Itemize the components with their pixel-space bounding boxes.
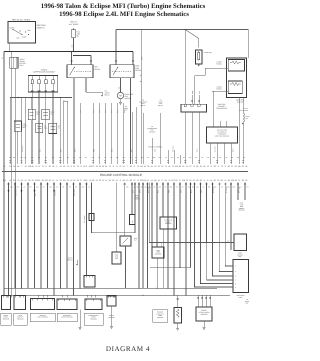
svg-text:75: 75	[17, 179, 19, 182]
svg-text:75: 75	[168, 179, 170, 182]
camshaft position sensor box	[57, 299, 77, 310]
svg-text:24: 24	[182, 165, 184, 168]
label box engine coolant temp sensor	[153, 310, 168, 322]
svg-text:22GA: 22GA	[161, 243, 163, 247]
svg-text:73: 73	[221, 165, 223, 168]
fusible link coil symbol	[243, 113, 245, 122]
stair wires into DLC	[225, 265, 233, 267]
condenser fan fuse A box	[228, 60, 244, 72]
wire joint connector A down	[11, 68, 13, 296]
svg-text:75: 75	[42, 165, 44, 168]
bus2 horizontal y97.5	[10, 97, 72, 99]
svg-text:88: 88	[179, 165, 181, 168]
wire to EVAP solenoid	[149, 242, 234, 244]
svg-text:84: 84	[17, 165, 19, 168]
suppressor capacitor 1	[31, 76, 33, 80]
svg-text:97: 97	[102, 179, 104, 182]
arrow sub fuse feed	[198, 65, 200, 67]
bus3 horizontal y288.3	[4, 287, 217, 289]
svg-text:7: 7	[21, 165, 22, 168]
wire relay2 to fan motor	[120, 78, 122, 93]
ground coolant sensor	[176, 327, 179, 330]
wire horizontal y232.8	[92, 232, 135, 234]
ground oxygen sensor	[203, 326, 206, 329]
noise filter box	[130, 215, 135, 225]
svg-text:39: 39	[60, 179, 62, 182]
svg-text:60: 60	[13, 179, 15, 182]
svg-text:64: 64	[235, 165, 237, 168]
left field vertical wires down to PCM	[9, 120, 11, 164]
svg-text:59: 59	[21, 179, 23, 182]
stair wire 280	[207, 279, 234, 281]
wire cond fan module out2 down	[242, 98, 244, 114]
svg-text:65: 65	[49, 165, 51, 168]
sub fusible link element	[198, 51, 200, 61]
wire down to power transistor	[184, 30, 186, 105]
fuel pump check connector box	[84, 276, 95, 288]
arrow to start relay	[101, 95, 103, 97]
svg-text:BLK: BLK	[246, 118, 249, 120]
svg-text:40: 40	[217, 179, 219, 182]
ignition switch contacts	[12, 29, 13, 30]
wire cond fuse A to left	[205, 67, 228, 69]
middle field vertical wires down to PCM	[131, 112, 133, 164]
svg-text:48: 48	[203, 165, 205, 168]
wires power transistor up	[191, 95, 193, 104]
svg-text:55: 55	[245, 165, 247, 168]
svg-text:37: 37	[238, 179, 240, 182]
wire down to power transistor	[194, 76, 196, 105]
wire jog to x194.5	[195, 75, 206, 77]
svg-text:74: 74	[56, 179, 58, 182]
svg-text:TRANSISTOR: TRANSISTOR	[216, 107, 228, 110]
svg-text:DIAGRAM 4: DIAGRAM 4	[106, 345, 150, 353]
svg-text:64: 64	[67, 179, 69, 182]
svg-text:NO.2: NO.2	[20, 64, 24, 67]
ignition switch box	[8, 22, 36, 44]
wire horizontal y267.5	[150, 267, 191, 269]
idle air control motor box	[31, 299, 55, 310]
suppressor capacitor 3	[45, 76, 47, 80]
joint connector box	[10, 57, 18, 68]
svg-text:11: 11	[52, 179, 54, 182]
svg-text:1996-98 Eclipse 2.4L MFI Engin: 1996-98 Eclipse 2.4L MFI Engine Schemati…	[59, 11, 189, 18]
ground fan motor	[119, 101, 122, 104]
wire fusible link down to PCM	[242, 122, 244, 164]
wires A/T module down to PCM	[209, 143, 211, 164]
svg-text:27: 27	[231, 165, 233, 168]
svg-text:10: 10	[85, 179, 87, 182]
svg-text:HOT AT ALL TIMES: HOT AT ALL TIMES	[12, 18, 31, 21]
svg-text:68: 68	[63, 179, 65, 182]
svg-text:89: 89	[154, 179, 156, 182]
svg-text:37: 37	[80, 179, 82, 182]
accessory relay box	[120, 236, 131, 246]
svg-text:98: 98	[130, 179, 132, 182]
svg-text:8: 8	[207, 179, 208, 182]
svg-text:75: 75	[119, 165, 121, 168]
svg-text:72: 72	[133, 179, 135, 182]
svg-text:51: 51	[13, 165, 15, 168]
svg-text:12: 12	[60, 165, 62, 168]
wire suppressor 2 down to PCM	[38, 92, 40, 164]
ignition power transistor box	[181, 104, 207, 112]
svg-text:44: 44	[70, 179, 72, 182]
svg-text:RLY: RLY	[134, 240, 137, 242]
MFI engine control relay box	[67, 65, 93, 78]
svg-text:90: 90	[214, 179, 216, 182]
svg-text:44: 44	[105, 179, 107, 182]
svg-text:29: 29	[99, 165, 101, 168]
svg-text:77: 77	[161, 179, 163, 182]
svg-text:58: 58	[77, 179, 79, 182]
suppressor assembly box	[28, 76, 58, 93]
svg-text:9: 9	[204, 179, 205, 182]
svg-text:336: 336	[118, 87, 120, 90]
A/C diode box	[89, 214, 94, 221]
wire cond fan module out1 down to PCM	[238, 98, 240, 164]
svg-text:32: 32	[31, 179, 33, 182]
radiator fan motor M	[117, 92, 123, 98]
svg-text:COMP: COMP	[124, 108, 128, 110]
svg-text:59: 59	[175, 179, 177, 182]
wire jog down to relay1 pin2	[90, 56, 92, 65]
svg-text:86: 86	[123, 179, 125, 182]
svg-text:TO A/C SYSTEM: TO A/C SYSTEM	[148, 145, 162, 148]
svg-text:105: 105	[175, 165, 178, 168]
svg-text:74: 74	[116, 165, 118, 168]
wires A/T module top stubs	[219, 121, 221, 127]
svg-text:42: 42	[3, 165, 5, 168]
svg-text:39: 39	[28, 179, 30, 182]
svg-text:ENGINE CONTROL MODULE: ENGINE CONTROL MODULE	[100, 173, 142, 177]
wires from bus3 down to bottom component boxes	[6, 295, 8, 297]
left edge vertical wire	[3, 52, 5, 297]
throttle position sensor box	[2, 296, 11, 310]
svg-text:74: 74	[137, 179, 139, 182]
svg-text:88: 88	[228, 179, 230, 182]
svg-text:Center tap: Center tap	[204, 51, 212, 54]
svg-text:18: 18	[144, 165, 146, 168]
diode box 1	[28, 109, 35, 119]
svg-text:DIAL SENSE: DIAL SENSE	[240, 110, 248, 112]
splice junction diamond	[53, 190, 55, 193]
svg-text:M: M	[119, 95, 121, 98]
svg-text:92: 92	[214, 165, 216, 168]
svg-text:88: 88	[238, 165, 240, 168]
svg-text:35: 35	[189, 179, 191, 182]
svg-text:71: 71	[210, 165, 212, 168]
svg-text:100: 100	[3, 179, 6, 182]
svg-text:VEHICLE: VEHICLE	[134, 199, 140, 201]
svg-text:9: 9	[179, 179, 180, 182]
svg-text:31: 31	[73, 165, 75, 168]
svg-text:72: 72	[172, 165, 174, 168]
svg-text:54: 54	[116, 179, 118, 182]
svg-text:69: 69	[242, 165, 244, 168]
svg-text:94: 94	[210, 179, 212, 182]
svg-text:110: 110	[140, 165, 143, 168]
svg-text:74: 74	[165, 165, 167, 168]
wire down to sub fuse	[198, 39, 200, 48]
wire bus1 corner to fan relay 2 pin2	[132, 52, 134, 65]
wire to coolant temp sensor	[177, 295, 179, 307]
svg-text:24: 24	[38, 179, 40, 182]
svg-text:73: 73	[92, 165, 94, 168]
diode box 2	[42, 109, 50, 119]
svg-text:16: 16	[161, 165, 163, 168]
svg-text:14: 14	[186, 165, 188, 168]
radiator fan relay box	[110, 65, 134, 78]
svg-text:54: 54	[96, 179, 98, 182]
wire EGR sensor down	[156, 258, 158, 288]
wire cond fuse B to left	[213, 91, 228, 93]
svg-text:92: 92	[242, 179, 244, 182]
svg-text:25: 25	[200, 165, 202, 168]
engine coolant temp sensor box	[174, 308, 182, 324]
svg-text:40: 40	[168, 165, 170, 168]
wire right of relay2 down to PCM	[140, 30, 142, 164]
svg-text:100: 100	[45, 179, 48, 182]
svg-text:50: 50	[245, 179, 247, 182]
vehicle speed sensor box	[160, 217, 177, 229]
svg-text:8: 8	[113, 165, 114, 168]
svg-text:28: 28	[52, 165, 54, 168]
sub fusible link box	[196, 50, 203, 64]
svg-text:66: 66	[92, 179, 94, 182]
svg-text:FOR: FOR	[135, 195, 138, 197]
lower vertical wires from PCM	[8, 183, 10, 296]
svg-text:41: 41	[147, 179, 149, 182]
svg-text:108: 108	[182, 179, 185, 182]
wire relay1 out down to PCM	[73, 78, 75, 164]
wire to power steering switch	[116, 183, 118, 253]
knock sensor box	[107, 296, 116, 306]
svg-text:47: 47	[24, 179, 26, 182]
resistor box 4	[49, 123, 57, 133]
center field vertical wires down to PCM	[79, 103, 81, 164]
wire VSS down	[162, 229, 164, 288]
wire suppressor 4 down to PCM	[52, 92, 54, 164]
svg-text:90: 90	[196, 179, 198, 182]
svg-text:FUSE 1: FUSE 1	[246, 116, 251, 118]
wire relay1 out2 down	[85, 78, 87, 92]
svg-text:16: 16	[96, 165, 98, 168]
svg-text:13: 13	[35, 165, 37, 168]
svg-text:ACC: ACC	[134, 238, 137, 240]
svg-text:105: 105	[143, 179, 146, 182]
svg-text:8: 8	[46, 165, 47, 168]
splice junction diamond	[21, 190, 23, 193]
data link connector box	[233, 260, 249, 293]
wires to heated oxygen sensor	[197, 295, 199, 307]
svg-text:80: 80	[228, 165, 230, 168]
suppressor capacitor 2	[38, 76, 40, 80]
svg-text:KEY ST: KEY ST	[243, 108, 248, 110]
wire bus1 to relay1 pin1	[71, 52, 73, 65]
wire jog y55.5 to relay1 pin2	[74, 55, 92, 57]
svg-text:94: 94	[73, 179, 75, 182]
diagonal wire to sub fuse	[185, 30, 199, 39]
svg-text:SWITCH: SWITCH	[37, 27, 45, 30]
svg-text:12: 12	[186, 179, 188, 182]
wire bus1 to joint connector	[11, 52, 13, 58]
svg-text:64: 64	[165, 179, 167, 182]
svg-text:81: 81	[105, 165, 107, 168]
svg-text:82: 82	[196, 165, 198, 168]
wire relay2 control down to PCM	[130, 78, 132, 164]
svg-text:44: 44	[151, 179, 153, 182]
splice junction diamond	[8, 190, 10, 193]
svg-text:75: 75	[189, 165, 191, 168]
EGR temp sensor box	[152, 247, 164, 258]
svg-text:13: 13	[207, 165, 209, 168]
arrow to starter relay	[76, 264, 78, 266]
svg-text:RLY: RLY	[125, 110, 128, 112]
svg-text:20: 20	[9, 165, 11, 168]
connector ticks on relay pins	[70, 60, 72, 61]
svg-text:12: 12	[77, 165, 79, 168]
wire jog to arrow	[86, 91, 102, 93]
bus1 horizontal y51.5	[4, 51, 133, 53]
wire suppressor 3 down to PCM	[45, 92, 47, 164]
svg-text:6: 6	[120, 179, 121, 182]
heated oxygen sensor box	[196, 307, 212, 321]
wire down to A/T module	[212, 92, 214, 128]
svg-text:SUPPRESSOR ASSEMBLY: SUPPRESSOR ASSEMBLY	[33, 71, 56, 74]
svg-text:106: 106	[231, 179, 234, 182]
suppressor capacitor 4	[52, 76, 54, 80]
svg-text:1996-98 Talon & Eclipse MFI (T: 1996-98 Talon & Eclipse MFI (Turbo) Engi…	[41, 3, 206, 10]
svg-text:22: 22	[99, 179, 101, 182]
svg-text:63: 63	[112, 179, 114, 182]
fuel pump relay box	[14, 121, 21, 131]
svg-text:6: 6	[134, 165, 135, 168]
svg-text:45: 45	[158, 179, 160, 182]
bus2 left drop wire	[9, 98, 11, 121]
svg-text:20: 20	[109, 179, 111, 182]
svg-text:9: 9	[218, 165, 219, 168]
svg-text:74: 74	[224, 179, 226, 182]
svg-text:10: 10	[126, 179, 128, 182]
svg-text:16: 16	[89, 179, 91, 182]
condenser fan fuse B box	[228, 81, 242, 94]
automatic transaxle control module box	[207, 127, 238, 143]
PCM module line	[2, 171, 248, 173]
ground bottom 2	[110, 325, 113, 328]
svg-text:83: 83	[221, 179, 223, 182]
svg-text:8: 8	[225, 165, 226, 168]
resistor box 3	[36, 123, 43, 133]
svg-text:38: 38	[147, 165, 149, 168]
svg-text:81: 81	[102, 165, 104, 168]
power steering pressure switch box	[112, 252, 121, 264]
svg-text:RELAY: RELAY	[95, 68, 102, 71]
svg-text:29: 29	[130, 165, 132, 168]
splice junction diamond	[34, 190, 36, 193]
svg-text:56: 56	[63, 165, 65, 168]
wire down to fan relay 2 pin1	[115, 30, 117, 65]
svg-text:7: 7	[127, 165, 128, 168]
svg-text:106: 106	[28, 165, 31, 168]
svg-text:74: 74	[193, 165, 195, 168]
svg-text:10: 10	[24, 165, 26, 168]
wire suppressor 1 down to PCM	[31, 92, 33, 164]
wire fuse to bus1	[73, 38, 75, 52]
svg-text:58: 58	[235, 179, 237, 182]
wire to ground 2	[111, 306, 113, 325]
svg-text:61: 61	[193, 179, 195, 182]
fusible link element	[73, 29, 74, 30]
wire joint connector B down	[15, 68, 17, 296]
ground bottom 1	[79, 326, 82, 329]
svg-text:5: 5	[56, 165, 57, 168]
svg-text:MOTOR: MOTOR	[125, 97, 132, 100]
svg-text:69: 69	[31, 165, 33, 168]
wire accessory relay down to bus3	[125, 246, 127, 288]
svg-text:86: 86	[200, 179, 202, 182]
svg-text:IGNITION: IGNITION	[37, 24, 46, 27]
svg-text:9: 9	[71, 165, 72, 168]
wire down to condenser fan box	[247, 30, 249, 59]
condenser fan relay module box	[227, 58, 247, 98]
bus3b horizontal y295.3	[7, 294, 230, 296]
svg-text:19: 19	[154, 165, 156, 168]
svg-text:51: 51	[123, 165, 125, 168]
svg-text:47: 47	[38, 165, 40, 168]
svg-text:8: 8	[86, 165, 87, 168]
svg-text:71: 71	[80, 165, 82, 168]
svg-text:72: 72	[137, 165, 139, 168]
wire ignition to bus1	[8, 43, 10, 52]
svg-text:75: 75	[109, 165, 111, 168]
svg-text:54: 54	[67, 165, 69, 168]
svg-text:103: 103	[171, 179, 174, 182]
wire to ground 1	[79, 310, 81, 327]
connector ticks above PCM row	[9, 161, 11, 162]
svg-text:70: 70	[158, 165, 160, 168]
svg-text:41: 41	[9, 179, 11, 182]
lower vertical wires right half	[124, 183, 126, 237]
wire top feed y29.5	[116, 29, 248, 31]
svg-text:ALL TIMES: ALL TIMES	[69, 23, 79, 26]
svg-text:32: 32	[49, 179, 51, 182]
wires power transistor down to PCM	[184, 112, 186, 164]
wire down to EVAP feed	[148, 183, 150, 243]
closed throttle switch box	[14, 296, 26, 310]
crankshaft position sensor box	[85, 299, 102, 310]
wire A/C compressor drop	[91, 183, 93, 233]
svg-text:54: 54	[151, 165, 153, 168]
EVAP purge solenoid box	[234, 234, 247, 251]
